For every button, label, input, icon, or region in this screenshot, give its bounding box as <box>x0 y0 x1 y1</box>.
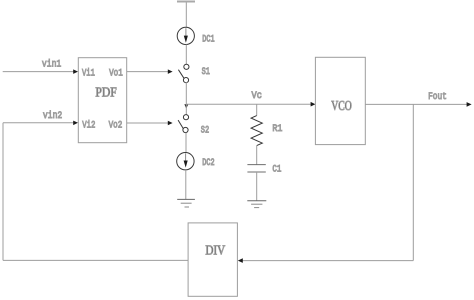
wire DIV output left <box>3 259 188 261</box>
svg-text:Vo2: Vo2 <box>109 119 123 131</box>
DIV box U3 <box>188 223 237 296</box>
wire feedback riser right <box>412 104 414 260</box>
svg-text:DIV: DIV <box>205 243 225 258</box>
wire vin2 input <box>3 110 78 125</box>
current source DC2 <box>177 153 215 170</box>
svg-text:C1: C1 <box>272 163 281 175</box>
wire DC2 to ground <box>185 171 187 200</box>
wire junction to S2 <box>185 104 187 115</box>
wire vin1 input <box>3 59 78 74</box>
svg-text:Vc: Vc <box>252 90 262 102</box>
capacitor C1 <box>247 163 281 200</box>
current source DC1 <box>177 27 214 44</box>
switch S1 <box>178 64 210 82</box>
wire Fout output <box>365 91 471 107</box>
svg-text:S2: S2 <box>201 125 209 137</box>
resistor R1 <box>251 104 282 164</box>
wire DC1 to S1 <box>185 45 187 65</box>
wire S2 to DC2 <box>185 133 187 153</box>
svg-text:DC2: DC2 <box>202 157 214 168</box>
wire S1 to junction <box>185 82 187 104</box>
power rail <box>177 1 195 3</box>
wire rail to DC1 <box>185 3 187 28</box>
wire Vo1 to S1 <box>127 69 173 74</box>
junction arrow <box>184 104 188 108</box>
ground (under C1) <box>247 201 266 208</box>
svg-text:vin2: vin2 <box>43 110 62 122</box>
svg-text:vin1: vin1 <box>42 59 61 71</box>
svg-text:DC1: DC1 <box>202 33 214 44</box>
svg-text:PDF: PDF <box>95 84 117 99</box>
PDF box U1 <box>78 58 126 143</box>
svg-text:VCO: VCO <box>331 98 352 113</box>
svg-text:S1: S1 <box>202 66 210 78</box>
wire Vc net <box>186 103 311 105</box>
VCO box U2 <box>315 57 365 144</box>
wire feedback bottom to DIV <box>238 258 413 263</box>
svg-text:R1: R1 <box>272 123 282 135</box>
switch S2 <box>178 115 209 137</box>
wire left riser to vin2 <box>2 123 4 261</box>
svg-text:Vo1: Vo1 <box>109 67 123 79</box>
wire Vo2 to S2 <box>127 121 173 126</box>
svg-text:Vi1: Vi1 <box>82 67 95 79</box>
ground (under DC2) <box>177 199 195 207</box>
svg-text:Fout: Fout <box>428 91 447 103</box>
svg-text:Vi2: Vi2 <box>82 119 95 131</box>
